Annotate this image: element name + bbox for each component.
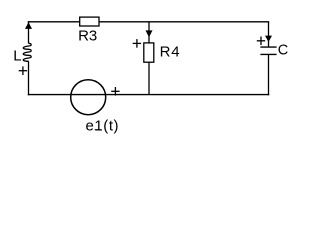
arrow down middle [146,30,153,37]
svg-text:R4: R4 [160,43,181,60]
wire right lower [268,54,270,95]
wire right upper [268,22,270,47]
wire left lower [28,61,30,95]
arrow down right [265,36,272,42]
wire left [28,21,30,43]
serif foot of digit 1 [95,129,101,131]
svg-text:e1(t): e1(t) [86,117,120,134]
plus L [19,66,27,75]
resistor R3 [80,17,99,26]
svg-text:L: L [13,48,21,65]
wire top [28,21,269,23]
source e1 circle [71,80,106,115]
wire middle lower [148,62,150,95]
plus e1 [111,87,119,96]
wire middle upper [148,22,150,43]
inductor L coil [23,43,31,61]
resistor R4 [144,43,154,62]
capacitor C plates [260,47,276,54]
arrow up left [25,22,32,29]
plus R4 [133,39,141,48]
wire bottom [28,94,269,96]
plus C [257,37,265,46]
svg-text:C: C [278,43,288,59]
svg-text:R3: R3 [78,27,97,44]
